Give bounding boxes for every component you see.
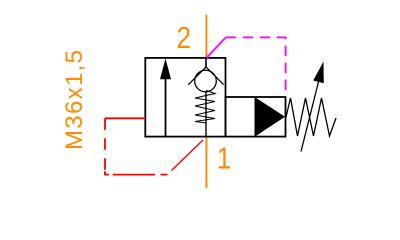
pilot line diagonal (red) bbox=[172, 140, 204, 171]
drain line diagonal (magenta) bbox=[206, 37, 225, 58]
drain line top (magenta dashed) bbox=[226, 37, 286, 96]
wire port1 line (orange, bottom) bbox=[205, 137, 207, 188]
poppet seat right bbox=[206, 67, 224, 85]
svg-text:M36x1,5: M36x1,5 bbox=[61, 50, 88, 150]
adjustable spring zigzag bbox=[286, 98, 336, 136]
pilot line corner piece (red) bbox=[105, 171, 109, 174]
pilot line bottom short dash (red) bbox=[161, 174, 168, 176]
poppet ball bbox=[195, 70, 217, 92]
relief flow triangle bbox=[255, 98, 285, 137]
flow arrow (up) shaft bbox=[165, 75, 167, 137]
pilot stage box bbox=[226, 97, 286, 137]
svg-text:2: 2 bbox=[177, 21, 191, 56]
adjustment arrow shaft bbox=[301, 81, 319, 151]
flow arrow (up) head bbox=[160, 59, 171, 80]
poppet seat left bbox=[188, 67, 206, 85]
adjustment arrow head bbox=[313, 62, 324, 84]
pilot stage divider bbox=[254, 97, 256, 137]
internal spring zigzag bbox=[195, 91, 215, 124]
pilot line vertical (red dashed) bbox=[104, 118, 106, 171]
pilot line solid (red) bbox=[105, 117, 145, 119]
pilot line bottom long dash (red) bbox=[113, 174, 155, 176]
wire port2 line (orange, top) bbox=[205, 15, 207, 58]
valve main body box bbox=[145, 58, 225, 137]
poppet stem stub bbox=[205, 58, 207, 67]
svg-text:1: 1 bbox=[217, 141, 231, 176]
poppet stem lower bbox=[205, 92, 207, 137]
